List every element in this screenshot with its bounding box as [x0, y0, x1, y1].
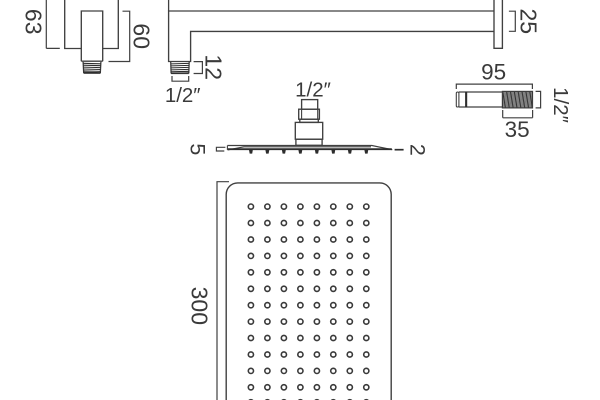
- nozzle hole grid: [248, 204, 369, 400]
- dimension bracket 12: [194, 62, 203, 74]
- dimension bracket 60: [109, 11, 130, 61]
- svg-text:25: 25: [515, 9, 541, 35]
- nozzle nubs (side view): [249, 150, 368, 154]
- svg-text:1/2″: 1/2″: [165, 84, 201, 107]
- wall elbow threaded tip 1/2 inch: [83, 62, 101, 73]
- dimension bracket 300: [217, 182, 229, 400]
- head faceplate outline (front view): [226, 183, 391, 400]
- dimension bracket 1/2 inch (union): [536, 91, 541, 108]
- shower arm tube outline: [169, 11, 494, 62]
- svg-text:5: 5: [185, 143, 209, 155]
- shower arm threaded tip 1/2 inch: [171, 62, 190, 74]
- union fitting body: [456, 92, 502, 107]
- svg-text:63: 63: [20, 9, 46, 35]
- union fitting collar ring: [465, 92, 467, 107]
- dimension bracket 1/2 inch (arm tip): [172, 76, 189, 81]
- svg-text:60: 60: [129, 23, 155, 49]
- wall elbow pipe body: [81, 11, 102, 61]
- svg-text:1/2″: 1/2″: [295, 79, 331, 102]
- svg-text:2: 2: [406, 144, 430, 156]
- svg-text:95: 95: [481, 60, 506, 85]
- head inlet connector stack: [295, 100, 322, 146]
- dimension bracket 95: [456, 84, 532, 89]
- svg-text:12: 12: [201, 54, 227, 80]
- dimension bracket 5: [216, 147, 225, 151]
- dimension bracket 35: [503, 110, 533, 118]
- cropped dimension tick above arm: [168, 0, 170, 11]
- svg-text:1/2″: 1/2″: [549, 87, 572, 123]
- head edge dash (2mm lip): [395, 149, 404, 151]
- svg-text:35: 35: [505, 117, 530, 142]
- dimension bracket 63: [46, 0, 60, 48]
- arm wall flange (side): [494, 0, 502, 48]
- head plate side profile: [227, 146, 392, 150]
- union fitting threaded section: [502, 91, 532, 108]
- wall elbow plate (top view): [65, 0, 119, 49]
- dimension bracket 25: [509, 11, 515, 31]
- svg-text:300: 300: [186, 287, 212, 325]
